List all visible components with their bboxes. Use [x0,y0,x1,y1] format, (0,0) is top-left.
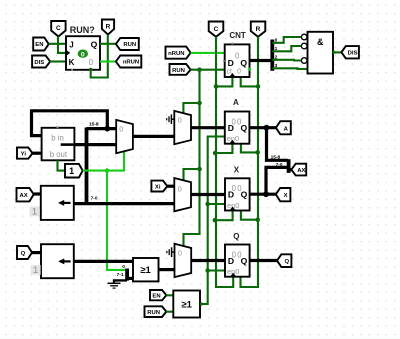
op: multiplexer M1 (b select) [116,120,133,153]
wire X-mux output to X.D [191,193,225,196]
op: counter CNT [223,31,251,77]
node JK bottom pin [89,68,92,71]
wire bit1 to inverted input 2 [272,46,301,51]
svg-text:1: 1 [33,265,38,276]
svg-text:nRUN: nRUN [168,51,184,57]
svg-text:0: 0 [81,51,85,58]
tunnel RUN (out) [116,38,139,50]
tunnel EN [33,38,49,51]
svg-text:EN: EN [152,293,160,299]
wire RUN vertical line down to mux selects [184,70,200,247]
wire R down to JK bottom pin [91,35,108,78]
svg-text:D: D [228,256,234,266]
svg-text:15-8: 15-8 [89,122,99,128]
wire ~Q to nRUN (high) [100,60,116,62]
wire A-mux select [183,103,199,114]
ground at A-mux input 0 [167,114,175,124]
op: register X [225,166,250,211]
wire X-mux select [184,169,200,181]
node X output bus [263,191,269,197]
op: register Q [225,232,250,277]
svg-text:EN: EN [35,42,43,48]
svg-text:0: 0 [178,249,182,258]
wire AX merge output [289,168,292,171]
node A output bus [264,125,270,131]
wire bit0 to inverted input 1 [272,37,301,43]
wire X reset branch [241,211,258,220]
tunnel A (out) [276,121,291,134]
wire const net down to bit0 of low splitter (high) [107,171,125,270]
tunnel DIS (out) [341,46,359,58]
op: sub-circuit B (b in / b out) [42,126,75,160]
wire Q en branch [208,269,225,271]
wire A-mux output to A.D [191,126,225,129]
svg-text:b in: b in [51,133,64,142]
svg-text:15-8: 15-8 [271,154,281,160]
svg-text:≥1: ≥1 [140,265,151,276]
svg-text:A: A [284,126,289,132]
wire EN to J [49,43,66,45]
wire counter reset branch [241,77,258,86]
op: multiplexer M4 (Q source) [175,244,192,277]
svg-text:0: 0 [178,116,182,125]
wire const 1 output (high) [83,152,124,171]
wire DIS to K [50,60,66,62]
node OR2 output pin [200,302,203,305]
tunnel DIS [32,56,50,68]
svg-text:Q: Q [240,123,247,133]
tunnel R (top, reset net) [251,22,265,37]
svg-text:DIS: DIS [348,51,358,57]
wire nRUN to counter (high) [191,52,225,54]
wire C to JK clock [58,37,66,53]
svg-text:&: & [317,37,324,47]
wire EN to OR2 [166,294,173,296]
svg-text:Yi: Yi [21,151,27,157]
svg-text:0: 0 [235,51,240,60]
svg-text:Q: Q [241,190,248,200]
svg-text:≥1: ≥1 [181,299,192,310]
node RUN branch [197,67,202,72]
node AND output pin [333,51,336,54]
node bus to mux input 0 [104,126,110,132]
wire Q-mux output to Q.D [191,259,225,262]
label 1 (SR2) [31,265,41,276]
node C to X clock [213,218,218,223]
svg-text:J: J [69,40,73,49]
op: shift register SR1 [40,186,74,220]
svg-text:D: D [228,190,234,200]
tunnel Xi (in) [151,181,167,192]
wire A clock branch [215,144,232,153]
svg-text:Q: Q [91,39,98,49]
node en to Q [205,268,210,273]
op: OR gate O1 [133,258,159,281]
svg-text:1: 1 [69,166,74,176]
svg-text:Q: Q [21,251,26,257]
wire A bus down to AX merge 15-8 [267,128,288,161]
svg-text:RUN?: RUN? [70,25,95,35]
wire bit2 to inverted input 3 [272,59,301,62]
svg-text:DIS: DIS [34,60,44,66]
op: constant 1 driver [65,164,83,178]
svg-text:7-1: 7-1 [117,272,124,278]
svg-text:1: 1 [32,207,37,218]
splitter S1 bar (16-bit split) [85,128,89,204]
wire Q.Q to tunnel Q [250,259,277,262]
wire Xi to X-mux input 0 [167,185,174,188]
tunnel C (top, clock net) [209,22,224,37]
svg-text:AX: AX [297,168,305,174]
label 1 (SR1) [30,206,40,217]
wire SR1 output to X-mux input 1 [74,202,175,205]
ground at Q-mux input 0 [167,247,175,257]
svg-text:0: 0 [122,264,125,270]
svg-text:R: R [106,23,111,30]
tunnel R (top, feeds JK async reset) [102,20,114,35]
svg-text:X: X [284,193,288,199]
wire A.Q to tunnel A [249,126,276,129]
wire R line down the page [241,37,259,287]
tunnel nRUN (out) [116,56,141,68]
wire X en branch [208,203,225,205]
wire C line down the page [216,37,233,287]
op: register A [225,98,250,144]
svg-text:Q: Q [285,259,290,265]
svg-text:C: C [214,26,219,33]
wire S4 output to OR1 input 2 [129,277,134,280]
tunnel C (clock, top left) [51,21,65,37]
svg-text:RUN: RUN [172,68,185,74]
node RUN to X-mux select [197,167,202,172]
wire bit3 to AND input 4 [272,67,307,70]
wire 16-bit bus from top to b in [32,111,108,136]
node R to A reset [255,150,260,155]
tunnel Q (in) [17,246,32,259]
ground symbol [108,283,121,288]
svg-text:Xi: Xi [155,185,161,191]
wire Q to RUN [100,43,116,45]
svg-text:AX: AX [20,193,28,199]
node R to counter reset [256,84,261,89]
wire X.Q to tunnel X [250,193,276,196]
wire ground to 7-1 [114,280,127,282]
wire AND output to DIS [333,51,341,53]
svg-text:RUN: RUN [147,310,160,316]
tunnel Q (out) [277,254,291,267]
tunnel AX (out) [291,164,306,176]
wire b bottom pin to const driver [58,160,66,170]
wire counter clock branch [216,77,232,86]
svg-text:A: A [233,98,239,107]
wire X bus up to AX merge 7-0 [266,167,288,194]
node const net branch [105,168,110,173]
wire A reset branch [241,144,258,153]
svg-text:7-0: 7-0 [91,196,98,202]
node C to counter clock [214,84,219,89]
svg-text:nRUN: nRUN [123,60,139,66]
node C to A clock [213,151,218,156]
wire AX to shift register 1 [34,192,41,195]
op: multiplexer M2 (A source) [174,111,191,144]
splitter S3 (AX merge) [287,159,291,173]
wire b-mux output to A-mux input 1 [133,135,174,138]
svg-text:C: C [56,25,61,32]
svg-text:0: 0 [119,124,123,133]
node R to X reset [255,217,260,222]
tunnel X (out) [276,188,291,201]
svg-text:K: K [69,58,75,67]
op: shift register SR2 [40,244,74,278]
op: AND gate U2 (&) with inverted inputs [301,32,333,74]
wire en line (A en) [200,137,225,305]
tunnel Yi (in) [17,148,33,159]
tunnel RUN (in, bottom) [145,306,167,317]
node RUN to A-mux select [197,101,202,106]
wire counter Q to splitter [250,59,272,62]
op: multiplexer M3 (X source) [174,178,191,211]
svg-text:D: D [228,58,234,68]
svg-text:D: D [228,123,234,133]
wire OR1 output to Q-mux input 1 [159,268,175,271]
wire b right pin through splitter to b-mux input 1 [74,143,116,146]
wire SR2 output to OR1 input 1 [74,260,133,263]
tunnel AX (in) [17,188,34,201]
svg-text:ct: ct [226,69,232,76]
node en to X [205,202,210,207]
wire RUN to OR2 [166,311,173,313]
op: OR gate O2 (en = EN|RUN) [173,291,200,318]
wire X clock branch [215,211,233,221]
svg-text:X: X [234,166,240,175]
svg-text:RUN: RUN [123,42,136,48]
splitter S2 (4 bits out) [270,40,274,71]
svg-text:Q: Q [233,232,239,241]
tunnel nRUN (in, to counter enable) [166,47,191,59]
svg-text:Q: Q [241,256,248,266]
svg-text:0: 0 [237,69,241,76]
wire RUN to counter ct [191,69,225,71]
splitter S4 (1+7 merge) [125,269,129,281]
svg-text:CNT: CNT [229,31,246,40]
svg-text:R: R [256,26,261,33]
tunnel EN (in, bottom) [150,290,166,300]
wire splitter 15-8 to b-mux input 0 [87,127,117,130]
tunnel RUN (in, to counter ct) [170,64,191,75]
svg-text:b out: b out [50,150,68,159]
svg-text:0: 0 [178,185,182,194]
svg-text:Q: Q [240,58,247,68]
svg-text:0: 0 [89,58,94,67]
wire Yi to b out [33,152,42,155]
wire Q to shift register 2 [32,251,41,254]
op: JK flip-flop U1 "RUN?" [66,25,100,71]
